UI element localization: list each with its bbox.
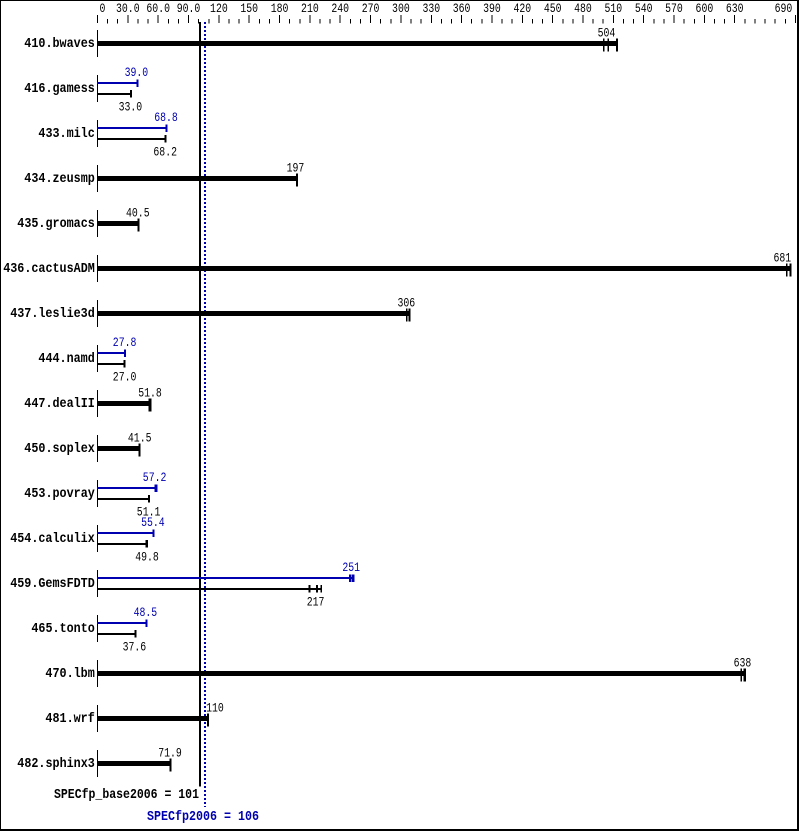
row 434.zeusmp: [97, 165, 298, 192]
svg-text:630: 630: [726, 2, 744, 16]
svg-text:150: 150: [240, 2, 258, 16]
row 437.leslie3d: [97, 300, 410, 327]
svg-text:0: 0: [99, 2, 105, 16]
svg-text:270: 270: [362, 2, 380, 16]
svg-text:600: 600: [696, 2, 714, 16]
svg-text:459.GemsFDTD: 459.GemsFDTD: [10, 576, 95, 592]
svg-text:49.8: 49.8: [135, 551, 159, 565]
svg-text:444.namd: 444.namd: [38, 351, 94, 367]
svg-text:435.gromacs: 435.gromacs: [17, 216, 95, 232]
svg-text:504: 504: [598, 27, 616, 41]
row 453.povray: [97, 480, 157, 507]
svg-text:416.gamess: 416.gamess: [24, 81, 95, 97]
svg-text:410.bwaves: 410.bwaves: [24, 36, 95, 52]
svg-text:638: 638: [734, 657, 752, 671]
row 436.cactusADM: [97, 255, 791, 282]
axis ticks: [97, 15, 796, 23]
svg-text:240: 240: [331, 2, 349, 16]
svg-text:120: 120: [210, 2, 228, 16]
svg-text:217: 217: [307, 596, 325, 610]
svg-text:197: 197: [287, 162, 305, 176]
svg-text:433.milc: 433.milc: [38, 126, 94, 142]
svg-text:306: 306: [397, 297, 415, 311]
svg-text:39.0: 39.0: [125, 66, 149, 80]
svg-text:510: 510: [604, 2, 622, 16]
row 450.soplex: [97, 435, 141, 462]
svg-text:37.6: 37.6: [123, 641, 147, 655]
svg-text:330: 330: [422, 2, 440, 16]
svg-text:465.tonto: 465.tonto: [31, 621, 94, 637]
SPECfp2006 reference line (106, dotted blue): [204, 22, 206, 807]
svg-text:90.0: 90.0: [177, 2, 201, 16]
svg-text:300: 300: [392, 2, 410, 16]
svg-text:570: 570: [665, 2, 683, 16]
svg-text:110: 110: [206, 702, 224, 716]
svg-text:210: 210: [301, 2, 319, 16]
svg-text:251: 251: [342, 561, 360, 575]
row 482.sphinx3: [97, 750, 172, 777]
svg-text:180: 180: [271, 2, 289, 16]
svg-text:420: 420: [513, 2, 531, 16]
svg-text:450.soplex: 450.soplex: [24, 441, 95, 457]
svg-text:540: 540: [635, 2, 653, 16]
row 435.gromacs: [97, 210, 140, 237]
svg-text:41.5: 41.5: [128, 432, 152, 446]
svg-text:481.wrf: 481.wrf: [45, 711, 94, 727]
svg-text:482.sphinx3: 482.sphinx3: [17, 756, 95, 772]
svg-text:480: 480: [574, 2, 592, 16]
svg-text:68.2: 68.2: [153, 146, 177, 160]
SPECfp_base2006 reference line (101): [199, 22, 201, 787]
row 465.tonto: [97, 615, 148, 642]
row 416.gamess: [97, 75, 139, 102]
svg-text:55.4: 55.4: [141, 516, 165, 530]
svg-text:60.0: 60.0: [146, 2, 170, 16]
svg-text:40.5: 40.5: [126, 207, 150, 221]
svg-text:27.0: 27.0: [113, 371, 137, 385]
svg-text:437.leslie3d: 437.leslie3d: [10, 306, 95, 322]
svg-text:390: 390: [483, 2, 501, 16]
svg-text:51.8: 51.8: [138, 387, 162, 401]
svg-text:33.0: 33.0: [119, 101, 143, 115]
svg-text:57.2: 57.2: [143, 471, 167, 485]
row 454.calculix: [97, 525, 155, 552]
row 481.wrf: [97, 705, 209, 732]
svg-text:454.calculix: 454.calculix: [10, 531, 95, 547]
axis labels: [99, 2, 792, 16]
svg-text:681: 681: [773, 252, 791, 266]
svg-text:447.dealII: 447.dealII: [24, 396, 95, 412]
svg-text:450: 450: [544, 2, 562, 16]
row 433.milc: [97, 120, 167, 147]
row 459.GemsFDTD: [97, 570, 355, 597]
row 444.namd: [97, 345, 126, 372]
svg-text:360: 360: [453, 2, 471, 16]
svg-text:434.zeusmp: 434.zeusmp: [24, 171, 95, 187]
svg-text:27.8: 27.8: [113, 336, 137, 350]
svg-text:690: 690: [775, 2, 793, 16]
svg-text:SPECfp_base2006 = 101: SPECfp_base2006 = 101: [54, 788, 199, 803]
svg-text:71.9: 71.9: [158, 747, 182, 761]
svg-text:SPECfp2006 = 106: SPECfp2006 = 106: [147, 810, 259, 825]
svg-text:30.0: 30.0: [116, 2, 140, 16]
svg-text:453.povray: 453.povray: [24, 486, 95, 502]
row 447.dealII: [97, 390, 152, 417]
svg-text:48.5: 48.5: [134, 606, 158, 620]
svg-text:470.lbm: 470.lbm: [45, 666, 94, 682]
svg-text:68.8: 68.8: [154, 111, 178, 125]
row 410.bwaves: [97, 30, 618, 57]
row 470.lbm: [97, 660, 746, 687]
svg-text:436.cactusADM: 436.cactusADM: [3, 261, 95, 277]
